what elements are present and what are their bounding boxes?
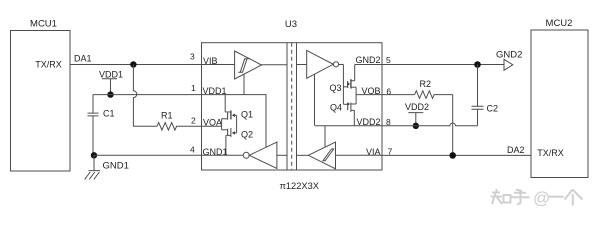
op-amp inverter left (pointing left) <box>243 142 277 169</box>
svg-text:2: 2 <box>191 116 196 126</box>
wire GND2 internal <box>355 64 382 66</box>
resistor R2 <box>415 79 453 98</box>
wire GND1 internal <box>202 154 244 156</box>
svg-text:GND1: GND1 <box>103 160 129 171</box>
wire VDD1 internal rail <box>202 95 267 150</box>
wire DA1 to R1 (vertical with hop over VDD1) <box>133 65 157 127</box>
wire VIB <box>202 64 235 66</box>
MCU1 <box>11 19 71 172</box>
wire barrier to right triangle (top channel) <box>297 64 307 66</box>
svg-text:TX/RX: TX/RX <box>35 60 62 70</box>
isolation barrier <box>287 43 297 170</box>
wire Schmitt output to barrier bottom <box>297 154 309 156</box>
transistor Q4 <box>330 102 356 126</box>
capacitor C1 <box>88 95 115 156</box>
wire inverter input from barrier <box>277 154 287 156</box>
wire VDD2 internal rail <box>315 125 382 127</box>
transistor Q2 <box>222 128 253 155</box>
MCU2 <box>531 18 588 178</box>
svg-text:VDD2: VDD2 <box>405 102 429 112</box>
power symbol VDD2 <box>405 102 429 126</box>
wire inverter bottom power stub <box>324 126 326 147</box>
pin 6 label VOB <box>361 86 391 96</box>
svg-text:Q3: Q3 <box>330 83 342 93</box>
wire VIA external DA2 <box>382 145 531 155</box>
svg-text:U3: U3 <box>285 19 297 30</box>
svg-text:Q1: Q1 <box>241 110 253 120</box>
wire inverter power stub right <box>314 74 316 126</box>
wire VOA to gates <box>202 119 222 130</box>
wire common drain Q1 Q2 <box>236 115 238 133</box>
svg-text:R2: R2 <box>420 79 432 89</box>
U3 box <box>202 19 383 191</box>
wire VDD1 net <box>93 94 202 96</box>
svg-text:MCU1: MCU1 <box>30 19 57 30</box>
svg-text:@: @ <box>533 189 550 208</box>
wire DA1 <box>70 54 202 65</box>
svg-text:DA1: DA1 <box>74 54 92 64</box>
svg-text:VDD1: VDD1 <box>99 70 123 80</box>
node GND2 junction <box>474 61 481 68</box>
wire common drain Q3 Q4 <box>355 87 357 104</box>
svg-text:Q4: Q4 <box>330 103 342 113</box>
wire R2 down to DA2 <box>452 95 454 156</box>
wire VOB internal <box>356 94 382 96</box>
svg-text:4: 4 <box>190 145 195 155</box>
pin 8 label VDD2 <box>356 117 391 127</box>
ground GND1 <box>85 155 129 179</box>
op-amp inverter right top <box>307 50 339 78</box>
wire GND2 external <box>382 64 504 66</box>
wire VOB external to R2 <box>382 94 415 96</box>
transistor Q3 <box>330 65 357 94</box>
transistor Q1 <box>222 95 253 120</box>
svg-text:3: 3 <box>190 52 195 62</box>
svg-text:DA2: DA2 <box>507 145 525 155</box>
pin 5 label GND2 <box>355 55 391 65</box>
power symbol VDD1 <box>99 70 123 95</box>
wire GND1 to U3 pin 4 <box>94 154 202 156</box>
wire inverter output to gates Q3 Q4 <box>339 65 344 105</box>
node GND1 junction <box>91 152 97 158</box>
wire VDD2 external (hop over vertical) <box>382 123 478 126</box>
node DA1 junction <box>130 61 136 67</box>
capacitor C2 <box>472 65 499 126</box>
GND2 arrow symbol <box>496 49 522 70</box>
pin 1 label VDD1 <box>191 83 227 96</box>
resistor R1 <box>157 111 202 131</box>
svg-text:TX/RX: TX/RX <box>537 148 564 158</box>
svg-text:π122X3X: π122X3X <box>279 181 319 191</box>
svg-text:5: 5 <box>386 55 391 65</box>
pin 2 label VOA <box>191 116 222 128</box>
node VDD2 junction <box>413 123 419 129</box>
svg-text:C2: C2 <box>487 104 499 114</box>
wire VIA internal <box>336 154 383 156</box>
svg-text:MCU2: MCU2 <box>546 18 573 29</box>
op-amp Schmitt right bottom (pointing left) <box>308 142 335 169</box>
pin 3 label VIB <box>190 52 218 66</box>
wire buffer power stub <box>243 74 245 94</box>
pin 4 label GND1 <box>190 145 228 157</box>
svg-text:1: 1 <box>191 83 196 93</box>
svg-text:GND2: GND2 <box>355 55 380 65</box>
wire buffer output to barrier <box>262 64 288 66</box>
pin 7 label VIA <box>366 147 393 157</box>
watermark zhihu <box>491 189 583 208</box>
svg-text:Q2: Q2 <box>241 130 253 140</box>
node DA2 junction <box>449 152 456 159</box>
svg-text:R1: R1 <box>161 111 173 121</box>
op-amp buffer (Schmitt) left <box>235 51 262 79</box>
node VDD1 junction <box>107 91 113 97</box>
svg-text:GND2: GND2 <box>496 49 522 60</box>
svg-text:C1: C1 <box>103 109 115 119</box>
